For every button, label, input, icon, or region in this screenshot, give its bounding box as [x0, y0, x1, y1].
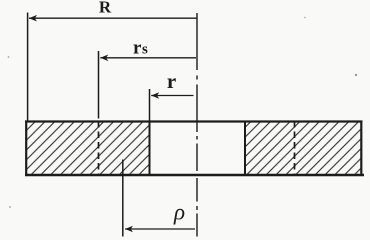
rs extension line: [98, 51, 100, 119]
rs radius dashed line left: [98, 121, 100, 175]
speck left: [8, 56, 10, 58]
rs radius dashed line right: [294, 121, 296, 175]
rho arrowhead: [125, 226, 133, 233]
bore right edge: [244, 121, 246, 175]
R dimension line: [29, 17, 197, 19]
disc outline right edge: [360, 121, 362, 177]
bore left edge: [149, 121, 151, 175]
r dimension line: [151, 95, 193, 97]
hatching right block: [246, 123, 361, 175]
disc outline left edge: [25, 121, 27, 177]
speck top right: [304, 17, 306, 19]
svg-text:r: r: [167, 69, 176, 93]
svg-text:R: R: [99, 0, 112, 17]
hatching left block: [27, 123, 149, 175]
rho dimension line: [125, 228, 195, 230]
svg-text:ρ: ρ: [173, 200, 185, 225]
r arrowhead: [151, 92, 159, 99]
centerline axis dash-dot: [196, 13, 198, 237]
speck right: [355, 74, 357, 76]
R arrowhead: [29, 15, 37, 22]
rs dimension line: [100, 57, 196, 59]
rho leader line: [122, 160, 124, 237]
disc outline bottom edge: [25, 174, 364, 176]
speck bottom left: [9, 206, 11, 208]
disc outline top edge: [25, 120, 363, 122]
svg-text:rs: rs: [133, 38, 148, 59]
r extension line: [149, 89, 151, 121]
rs arrowhead: [100, 55, 108, 62]
R extension line: [27, 13, 29, 121]
